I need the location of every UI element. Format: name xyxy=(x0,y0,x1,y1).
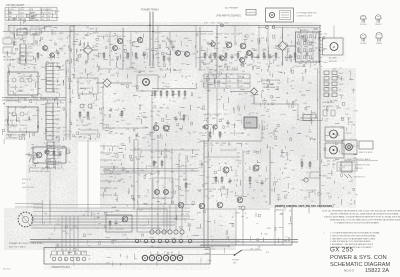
wire xyxy=(151,140,153,205)
svg-text:2SB834: 2SB834 xyxy=(376,43,382,45)
transistor Q701 xyxy=(226,42,232,48)
label text row xyxy=(240,65,251,67)
svg-text:0.01: 0.01 xyxy=(114,35,118,37)
svg-text:0.01: 0.01 xyxy=(190,157,194,159)
svg-text:1/2W: 1/2W xyxy=(55,11,59,13)
svg-text:2SA733: 2SA733 xyxy=(200,33,207,36)
transistor Q705 xyxy=(220,56,225,61)
notes paragraph xyxy=(322,210,400,225)
label power sw xyxy=(232,260,240,265)
svg-text:OFF: OFF xyxy=(228,81,231,83)
svg-text:Q7: Q7 xyxy=(97,217,99,219)
svg-text:D4: D4 xyxy=(139,113,141,115)
label text row xyxy=(200,33,240,36)
model title GX 255 xyxy=(330,247,354,254)
svg-text:100: 100 xyxy=(198,191,201,193)
svg-text:PRIMARY AC SUPPLY ( SEE FU: PRIMARY AC SUPPLY ( SEE FUSE ) xyxy=(9,242,44,245)
capacitor C632 xyxy=(88,104,92,108)
wire xyxy=(73,26,75,66)
transistor Q704 xyxy=(240,58,245,63)
svg-text:12V REG: 12V REG xyxy=(113,174,122,176)
label text row xyxy=(14,39,25,41)
resistor R621 xyxy=(163,55,165,63)
svg-text:47: 47 xyxy=(261,191,263,193)
svg-text:560: 560 xyxy=(35,153,38,155)
label text row xyxy=(204,23,228,25)
wire xyxy=(65,60,67,140)
label pw amp pc board xyxy=(216,15,241,18)
svg-text:Q7: Q7 xyxy=(286,159,288,161)
svg-text:100P: 100P xyxy=(156,111,161,113)
fuse F802 box xyxy=(303,115,311,121)
svg-text:Q7: Q7 xyxy=(143,225,145,227)
wire xyxy=(69,66,71,140)
svg-text:AC FAN: AC FAN xyxy=(329,57,337,60)
svg-text:1/2W: 1/2W xyxy=(232,68,236,70)
wire xyxy=(15,203,42,205)
wire xyxy=(333,25,335,38)
svg-text:REMOTE JACK: REMOTE JACK xyxy=(359,151,373,154)
svg-text:100: 100 xyxy=(96,43,99,45)
drawing number xyxy=(344,268,389,274)
svg-text:SW: SW xyxy=(56,81,59,83)
svg-text:D4: D4 xyxy=(230,74,232,76)
small box xyxy=(359,141,373,149)
diode pair xyxy=(323,110,335,116)
wire xyxy=(157,25,159,66)
junction xyxy=(319,37,321,63)
svg-text:47: 47 xyxy=(80,77,82,79)
svg-text:D4: D4 xyxy=(65,241,67,243)
wire xyxy=(104,168,198,170)
svg-text:GND: GND xyxy=(56,136,61,138)
wire xyxy=(31,218,190,220)
svg-text:D404: D404 xyxy=(150,157,155,159)
label text row xyxy=(300,190,316,192)
resistor R804 xyxy=(309,161,311,169)
svg-text:100: 100 xyxy=(242,71,245,73)
svg-text:0.01: 0.01 xyxy=(251,33,255,35)
svg-text:R12: R12 xyxy=(140,105,143,107)
signal list xyxy=(100,146,122,197)
svg-text:0.01: 0.01 xyxy=(228,42,232,44)
winding taps xyxy=(53,103,62,142)
label text rows xyxy=(327,161,336,167)
svg-text:47: 47 xyxy=(249,77,251,79)
svg-text:Q7: Q7 xyxy=(328,132,330,134)
component cluster sys con xyxy=(201,143,294,212)
lamp PL802 xyxy=(330,146,338,154)
svg-text:D4: D4 xyxy=(155,39,157,41)
svg-text:560: 560 xyxy=(250,41,253,43)
svg-text:47: 47 xyxy=(68,148,70,150)
svg-text:( REAR PANEL ): ( REAR PANEL ) xyxy=(262,86,277,89)
svg-text:560: 560 xyxy=(325,119,328,121)
voltage table title VR-105 xyxy=(6,3,25,7)
numbered notes list xyxy=(324,232,380,250)
svg-text:2SC945: 2SC945 xyxy=(360,24,367,26)
svg-text:LAMP: LAMP xyxy=(56,106,62,109)
resistor R615 xyxy=(183,114,185,122)
wire xyxy=(49,168,51,216)
svg-text:1/2W: 1/2W xyxy=(157,228,161,230)
svg-text:100: 100 xyxy=(131,198,134,200)
svg-text:C5: C5 xyxy=(100,112,102,114)
svg-text:R12: R12 xyxy=(23,37,26,39)
svg-text:POWER TRANS: POWER TRANS xyxy=(141,9,159,12)
socket contacts xyxy=(142,255,182,260)
label pb board xyxy=(30,167,49,173)
svg-text:D4: D4 xyxy=(187,161,189,163)
svg-text:R12: R12 xyxy=(33,80,36,82)
svg-text:C5: C5 xyxy=(287,35,289,37)
svg-text:REC: REC xyxy=(56,63,61,65)
bridge rectifier D602 xyxy=(96,79,132,87)
paper white pocket left xyxy=(4,140,26,208)
svg-text:560: 560 xyxy=(217,43,220,45)
svg-text:560: 560 xyxy=(90,108,93,110)
transistor Q607 xyxy=(185,52,190,57)
svg-text:1/2W: 1/2W xyxy=(131,63,135,65)
svg-text:IC701: IC701 xyxy=(246,123,252,125)
label pb-1103 board xyxy=(6,134,26,140)
svg-text:560: 560 xyxy=(224,64,227,66)
label text row xyxy=(150,111,162,113)
svg-text:D4: D4 xyxy=(247,52,249,54)
svg-text:47: 47 xyxy=(251,58,253,60)
svg-text:PB-1106: PB-1106 xyxy=(3,57,12,59)
resistor R621b xyxy=(53,150,55,158)
svg-text:1/2W: 1/2W xyxy=(55,118,59,120)
power transformer primary xyxy=(18,212,33,227)
svg-text:D4: D4 xyxy=(262,91,264,93)
optional remote jack box xyxy=(266,8,294,22)
harness wire xyxy=(30,241,298,243)
svg-text:D4: D4 xyxy=(290,85,292,87)
svg-text:100: 100 xyxy=(170,152,173,154)
svg-text:100: 100 xyxy=(308,82,311,84)
svg-text:47: 47 xyxy=(18,117,20,119)
wire xyxy=(33,204,190,206)
svg-text:R705 4.7K: R705 4.7K xyxy=(115,229,124,231)
label text rows xyxy=(322,102,340,108)
svg-text:Q7: Q7 xyxy=(48,167,50,169)
title power sys con xyxy=(330,255,387,261)
diode D631 xyxy=(78,130,96,139)
svg-text:1/2W: 1/2W xyxy=(235,241,239,243)
capacitor C722 xyxy=(260,180,263,186)
svg-text:SW: SW xyxy=(217,77,220,79)
svg-text:560: 560 xyxy=(203,114,206,116)
wire xyxy=(297,104,299,120)
svg-text:1/2W: 1/2W xyxy=(308,44,312,46)
scan blotches right col xyxy=(320,68,356,208)
transistor Q604 xyxy=(113,46,118,51)
svg-text:Q7: Q7 xyxy=(63,130,65,132)
svg-text:1/2W: 1/2W xyxy=(155,57,159,59)
wire xyxy=(130,32,132,67)
svg-text:SELECT SW: SELECT SW xyxy=(262,83,274,85)
wire xyxy=(49,200,51,225)
component cluster table area xyxy=(8,7,60,25)
svg-text:560: 560 xyxy=(282,157,285,159)
svg-text:1/2W: 1/2W xyxy=(10,33,14,35)
svg-text:0.01: 0.01 xyxy=(204,196,208,198)
transistor Q743 xyxy=(217,202,223,208)
label text rows xyxy=(204,183,229,198)
svg-text:560: 560 xyxy=(354,157,357,159)
svg-text:100: 100 xyxy=(325,87,328,89)
svg-text:47: 47 xyxy=(198,139,200,141)
transistor Q741 xyxy=(178,202,184,208)
svg-text:R12: R12 xyxy=(237,81,240,83)
remote subtitle xyxy=(275,209,286,211)
bridge rectifier D702 xyxy=(230,88,258,104)
transistor Q702 xyxy=(240,43,246,49)
svg-text:Q7: Q7 xyxy=(351,180,353,182)
wire xyxy=(195,25,197,68)
label ac primary xyxy=(225,7,239,10)
resistor network xyxy=(324,71,344,97)
svg-text:560: 560 xyxy=(241,133,244,135)
wire xyxy=(69,26,71,66)
resistor ladder xyxy=(152,89,196,99)
component cluster center mid xyxy=(100,71,204,143)
svg-text:0.047: 0.047 xyxy=(152,108,157,110)
wire xyxy=(317,68,319,160)
svg-text:D4: D4 xyxy=(3,103,5,105)
svg-text:560: 560 xyxy=(270,57,273,59)
svg-text:100: 100 xyxy=(86,27,89,29)
svg-text:D4: D4 xyxy=(159,137,161,139)
svg-text:100: 100 xyxy=(181,149,184,151)
resistor R712 xyxy=(219,131,221,139)
arrow marks xyxy=(344,174,365,179)
svg-text:C5: C5 xyxy=(285,236,287,238)
wire xyxy=(242,210,244,245)
wire xyxy=(33,207,190,209)
label text rows xyxy=(262,79,281,89)
wire xyxy=(169,32,171,67)
svg-text:REC: REC xyxy=(57,161,62,163)
label pb-1102 board xyxy=(6,96,26,102)
svg-text:CONNECT REMOTE CABLE: CONNECT REMOTE CABLE xyxy=(344,158,371,161)
pilot jack xyxy=(346,144,353,151)
svg-text:Q7: Q7 xyxy=(285,163,287,165)
svg-text:SEE NOTE 3: SEE NOTE 3 xyxy=(354,177,365,179)
svg-text:Q7: Q7 xyxy=(203,171,205,173)
svg-text:M: M xyxy=(333,45,335,49)
winding taps xyxy=(53,63,62,94)
relay RY601 coil xyxy=(143,79,150,86)
transistor Q731 xyxy=(155,190,160,195)
label text row xyxy=(198,70,238,72)
wire xyxy=(242,150,244,197)
svg-text:100: 100 xyxy=(74,136,77,138)
svg-text:SPEAKER SYSTEM: SPEAKER SYSTEM xyxy=(262,79,281,82)
svg-text:D4: D4 xyxy=(61,249,63,251)
svg-text:C5: C5 xyxy=(51,234,53,236)
svg-text:Q7: Q7 xyxy=(204,145,206,147)
svg-text:D4: D4 xyxy=(135,33,137,35)
svg-text:PB-1102 P.C BOARD: PB-1102 P.C BOARD xyxy=(6,96,26,99)
component cluster left boards xyxy=(2,71,103,144)
svg-text:560: 560 xyxy=(166,108,169,110)
resistor R711 xyxy=(209,131,211,139)
wire xyxy=(269,185,271,204)
label fan xyxy=(329,57,337,63)
svg-text:C5: C5 xyxy=(24,82,26,84)
wire xyxy=(258,25,260,58)
label text row xyxy=(108,133,119,135)
svg-text:47: 47 xyxy=(222,51,224,53)
svg-text:C5: C5 xyxy=(49,135,51,137)
remote control unit title xyxy=(275,205,334,208)
svg-text:Q7: Q7 xyxy=(83,38,85,40)
switch S601 box xyxy=(17,29,28,35)
box xyxy=(153,178,173,198)
label text rows xyxy=(22,179,34,189)
svg-text:1/2W: 1/2W xyxy=(93,55,97,57)
svg-text:VR40 5K: VR40 5K xyxy=(19,125,27,127)
svg-text:LAMP: LAMP xyxy=(56,84,62,87)
wire xyxy=(31,215,190,217)
wire xyxy=(178,155,180,205)
operation connectors xyxy=(52,251,87,261)
connector CN601 xyxy=(20,44,34,66)
svg-text:47: 47 xyxy=(186,45,188,47)
wire xyxy=(234,25,236,42)
wire xyxy=(269,150,271,205)
svg-text:2SA733: 2SA733 xyxy=(216,33,223,36)
svg-text:D4: D4 xyxy=(277,49,279,51)
component cluster right mid xyxy=(200,70,301,141)
svg-text:C5: C5 xyxy=(15,115,17,117)
svg-text:10/50: 10/50 xyxy=(217,23,222,25)
svg-text:POWER: POWER xyxy=(232,260,240,262)
transistor Q605 xyxy=(137,37,142,42)
component cluster top left xyxy=(8,26,98,38)
resistor R613 xyxy=(103,52,105,60)
svg-text:L601: L601 xyxy=(16,91,20,93)
svg-text:Q7: Q7 xyxy=(128,137,130,139)
svg-text:1/2W: 1/2W xyxy=(41,28,45,30)
wire xyxy=(203,140,205,247)
label text row xyxy=(204,118,217,120)
svg-text:*: * xyxy=(324,232,325,236)
label power transformer xyxy=(141,9,159,12)
wires to operation block xyxy=(62,216,78,251)
svg-text:560: 560 xyxy=(292,170,295,172)
svg-text:1/2W: 1/2W xyxy=(208,72,212,74)
svg-text:100: 100 xyxy=(283,208,286,210)
label text row xyxy=(204,143,226,145)
fuse F801 box xyxy=(246,10,256,16)
svg-text:C5: C5 xyxy=(209,115,211,117)
svg-text:UNLESS OTHERWISE NOTED. ALL CA: UNLESS OTHERWISE NOTED. ALL CAPACITANCE … xyxy=(330,213,400,216)
svg-text:1/2W: 1/2W xyxy=(252,66,256,68)
wire AC bus xyxy=(8,24,321,26)
svg-text:C5: C5 xyxy=(326,84,328,86)
transistor Q722 xyxy=(253,165,259,171)
svg-text:D404: D404 xyxy=(140,71,145,73)
scan grain table xyxy=(4,4,58,22)
wire xyxy=(282,211,284,245)
svg-text:100P: 100P xyxy=(211,118,216,120)
svg-text:C5: C5 xyxy=(179,71,181,73)
wire xyxy=(185,155,187,205)
label text row xyxy=(76,124,88,127)
svg-text:100: 100 xyxy=(181,165,184,167)
scan grain lower xyxy=(4,208,236,250)
svg-text:0.01: 0.01 xyxy=(80,83,84,85)
svg-text:560: 560 xyxy=(216,115,219,117)
svg-text:C5: C5 xyxy=(31,44,33,46)
svg-text:560: 560 xyxy=(52,57,55,59)
svg-text:100: 100 xyxy=(301,36,304,38)
label text row xyxy=(204,113,228,116)
svg-text:TO REMOTE UNIT: TO REMOTE UNIT xyxy=(354,165,371,167)
lamp box xyxy=(325,127,344,141)
svg-text:Q7: Q7 xyxy=(170,182,172,184)
svg-text:47: 47 xyxy=(147,142,149,144)
label xyxy=(246,218,248,220)
svg-text:R12: R12 xyxy=(26,98,29,100)
capacitor C611 xyxy=(142,52,145,58)
svg-text:1/2W: 1/2W xyxy=(59,48,63,50)
svg-text:Q7: Q7 xyxy=(243,151,245,153)
wire xyxy=(31,227,160,229)
svg-text:1/2W: 1/2W xyxy=(235,160,239,162)
board edge boxes xyxy=(3,38,12,53)
capacitor C711 xyxy=(226,120,229,126)
svg-text:100: 100 xyxy=(134,46,137,48)
component cluster bottom right of center xyxy=(211,208,293,254)
svg-text:Q7: Q7 xyxy=(117,81,119,83)
svg-text:SW: SW xyxy=(42,19,45,21)
wire xyxy=(216,25,218,75)
resistor R612 xyxy=(135,52,137,60)
svg-text:R12: R12 xyxy=(124,57,127,59)
resistor R631 xyxy=(79,111,81,119)
svg-text:Q501 2SC945: Q501 2SC945 xyxy=(100,69,112,71)
wire xyxy=(109,32,111,67)
wire xyxy=(253,91,255,104)
svg-text:1/2W: 1/2W xyxy=(122,235,126,237)
svg-text:Q7: Q7 xyxy=(284,114,286,116)
svg-text:R12: R12 xyxy=(134,259,137,261)
svg-text:D404: D404 xyxy=(255,249,259,251)
svg-text:1/2W: 1/2W xyxy=(9,113,13,115)
svg-text:0.01: 0.01 xyxy=(211,183,215,185)
component cluster top connector xyxy=(298,28,328,67)
wire xyxy=(102,87,104,130)
svg-text:1/2W: 1/2W xyxy=(209,145,213,147)
svg-text:1/2W: 1/2W xyxy=(353,110,357,112)
terminal labels xyxy=(205,249,270,255)
harness junctions xyxy=(135,239,192,243)
transistor package drawing 2SA733 xyxy=(375,15,381,26)
svg-text:560: 560 xyxy=(209,191,212,193)
svg-text:Q501 2SC945: Q501 2SC945 xyxy=(98,36,110,38)
label box xyxy=(337,162,357,171)
svg-text:10/50: 10/50 xyxy=(163,157,168,159)
svg-text:R12: R12 xyxy=(285,57,288,59)
svg-text:47: 47 xyxy=(190,165,192,167)
svg-text:AC PRIMARY: AC PRIMARY xyxy=(225,7,239,10)
svg-text:0.01: 0.01 xyxy=(53,32,57,34)
wire xyxy=(133,140,135,210)
